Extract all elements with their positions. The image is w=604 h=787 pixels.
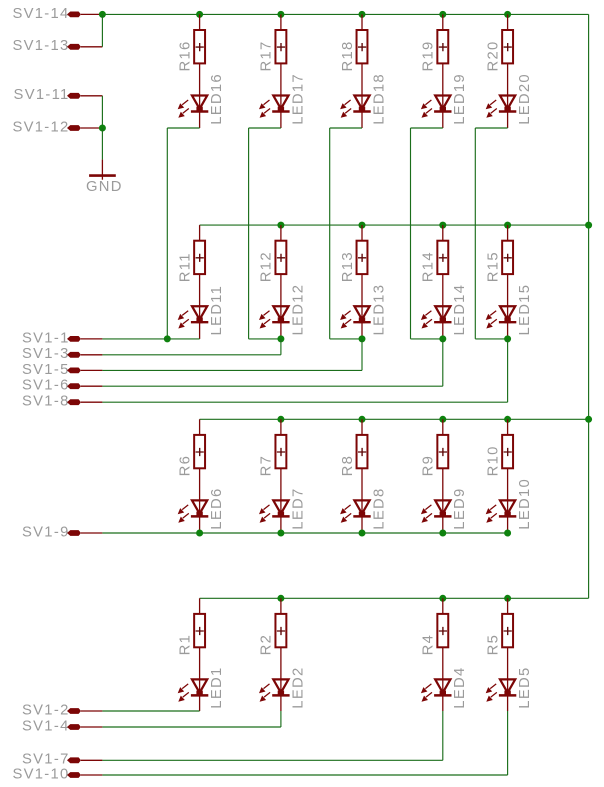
- junction SV1-9 row: [439, 530, 446, 537]
- svg-text:LED13: LED13: [371, 284, 387, 336]
- svg-text:SV1-8: SV1-8: [22, 394, 70, 410]
- junction row2 bus: [439, 222, 446, 229]
- wire LED17 jog left: [249, 127, 281, 129]
- resistor R8: [357, 419, 368, 500]
- LED LED11: [178, 305, 209, 339]
- junction row3 bus: [439, 416, 446, 423]
- svg-text:SV1-9: SV1-9: [22, 524, 70, 540]
- resistor R2: [275, 598, 286, 679]
- wire LED16 jog left: [167, 127, 199, 129]
- svg-text:R7: R7: [259, 455, 275, 477]
- svg-text:R19: R19: [421, 40, 437, 71]
- svg-text:LED20: LED20: [517, 73, 533, 125]
- svg-text:R20: R20: [485, 40, 501, 71]
- wire LED19 jog to column: [411, 338, 443, 340]
- resistor R5: [502, 598, 513, 679]
- junction SV1-9 row: [277, 530, 284, 537]
- junction row3 bus: [277, 416, 284, 423]
- resistor R17: [275, 14, 286, 95]
- wire SV1-3 up: [280, 339, 282, 355]
- svg-text:R17: R17: [259, 40, 275, 71]
- pin SV1-14: [12, 6, 102, 22]
- wire SV1-4 up: [280, 711, 282, 727]
- LED LED13: [340, 305, 371, 339]
- wire LED18 jog down: [329, 128, 331, 339]
- svg-text:LED12: LED12: [290, 284, 306, 336]
- wire LED16 jog down: [166, 128, 168, 339]
- junction SV1-9 row: [196, 530, 203, 537]
- svg-text:LED6: LED6: [209, 487, 225, 529]
- LED LED18: [340, 95, 371, 129]
- pin SV1-10: [12, 766, 102, 782]
- svg-text:R9: R9: [421, 455, 437, 477]
- wire SV1-6 up: [442, 339, 444, 386]
- svg-text:LED1: LED1: [209, 666, 225, 708]
- junction SV1-9 row: [359, 530, 366, 537]
- pin SV1-5: [22, 362, 102, 378]
- junction right vertical row2: [585, 222, 592, 229]
- junction cathode pair: [439, 335, 446, 342]
- LED LED9: [421, 499, 452, 533]
- wire net V+ top bus: [102, 13, 588, 15]
- junction right vertical row3: [585, 416, 592, 423]
- LED LED12: [259, 305, 290, 339]
- wire LED19 jog down: [410, 128, 412, 339]
- svg-text:R11: R11: [177, 252, 193, 282]
- LED LED16: [178, 95, 209, 129]
- svg-text:LED2: LED2: [290, 666, 306, 708]
- resistor R20: [502, 14, 513, 95]
- pin SV1-2: [22, 702, 102, 718]
- svg-text:LED11: LED11: [209, 285, 225, 336]
- LED LED15: [486, 305, 517, 339]
- junction cathode pair: [164, 335, 171, 342]
- junction SV1-14 bus: [99, 11, 106, 18]
- LED LED1: [178, 678, 209, 711]
- wire net V+ row3 bus: [200, 418, 589, 420]
- wire SV1-5 up: [361, 339, 363, 371]
- svg-text:LED7: LED7: [290, 487, 306, 529]
- svg-text:R12: R12: [259, 251, 275, 282]
- pin SV1-3: [22, 346, 102, 362]
- pin SV1-12: [12, 119, 102, 135]
- svg-text:LED17: LED17: [290, 73, 306, 125]
- svg-text:SV1-2: SV1-2: [22, 702, 70, 718]
- junction row1 bus: [504, 11, 511, 18]
- resistor R1: [194, 598, 205, 679]
- junction row3 bus: [359, 416, 366, 423]
- junction SV1-9 row: [504, 530, 511, 537]
- resistor R16: [194, 14, 205, 95]
- wire SV1-4: [102, 726, 281, 728]
- resistor R14: [437, 225, 448, 306]
- svg-text:SV1-13: SV1-13: [12, 38, 69, 54]
- junction row1 bus: [439, 11, 446, 18]
- wire LED20 jog to column: [475, 338, 507, 340]
- pin SV1-7: [22, 752, 102, 768]
- svg-text:R10: R10: [485, 445, 501, 476]
- wire LED17 jog down: [248, 128, 250, 339]
- svg-text:R8: R8: [340, 455, 356, 477]
- svg-text:SV1-10: SV1-10: [12, 766, 69, 782]
- wire SV1-7 up: [442, 711, 444, 760]
- LED LED8: [340, 499, 371, 533]
- svg-text:R5: R5: [485, 634, 501, 656]
- LED LED19: [421, 95, 452, 129]
- svg-text:GND: GND: [86, 179, 123, 195]
- resistor R12: [275, 225, 286, 306]
- LED LED4: [421, 678, 452, 711]
- svg-text:SV1-6: SV1-6: [22, 378, 70, 394]
- svg-text:LED19: LED19: [452, 73, 468, 125]
- resistor R13: [357, 225, 368, 306]
- svg-text:LED8: LED8: [371, 487, 387, 529]
- wire SV1-5: [102, 369, 362, 371]
- svg-text:LED16: LED16: [209, 73, 225, 125]
- junction row4 bus: [277, 595, 284, 602]
- resistor R10: [502, 419, 513, 500]
- LED LED5: [486, 678, 517, 711]
- wire SV1-1: [102, 338, 199, 340]
- junction row1 bus: [196, 11, 203, 18]
- svg-text:SV1-4: SV1-4: [22, 718, 70, 734]
- svg-text:LED5: LED5: [517, 666, 533, 708]
- wire LED20 jog left: [475, 127, 507, 129]
- svg-text:R15: R15: [485, 251, 501, 282]
- svg-text:SV1-12: SV1-12: [12, 119, 69, 135]
- resistor R19: [437, 14, 448, 95]
- junction SV1-12: [99, 125, 106, 132]
- junction cathode pair: [277, 335, 284, 342]
- ground: [89, 160, 116, 180]
- wire SV1-7: [102, 759, 442, 761]
- wire net V+ right vertical: [588, 14, 590, 598]
- pin SV1-11: [14, 87, 103, 103]
- svg-text:LED14: LED14: [452, 284, 468, 336]
- pin SV1-4: [22, 718, 102, 734]
- wire LED17 jog to column: [249, 338, 281, 340]
- resistor R15: [502, 225, 513, 306]
- svg-text:R13: R13: [340, 251, 356, 282]
- wire SV1-13 to bus: [101, 14, 103, 46]
- wire LED20 jog down: [474, 128, 476, 339]
- svg-text:R2: R2: [259, 634, 275, 656]
- wire SV1-9 common: [102, 532, 507, 534]
- junction row3 bus: [504, 416, 511, 423]
- svg-text:R6: R6: [177, 455, 193, 477]
- wire SV1-10: [102, 774, 507, 776]
- resistor R18: [357, 14, 368, 95]
- pin SV1-8: [22, 394, 102, 410]
- svg-text:LED10: LED10: [517, 478, 533, 530]
- svg-text:SV1-7: SV1-7: [22, 752, 70, 768]
- svg-text:LED4: LED4: [452, 666, 468, 708]
- wire LED18 jog left: [330, 127, 362, 129]
- junction row4 bus: [439, 595, 446, 602]
- junction cathode pair: [504, 335, 511, 342]
- junction row2 bus: [359, 222, 366, 229]
- svg-text:LED9: LED9: [452, 487, 468, 529]
- resistor R7: [275, 419, 286, 500]
- resistor R9: [437, 419, 448, 500]
- svg-text:R16: R16: [177, 40, 193, 71]
- svg-text:R14: R14: [421, 251, 437, 282]
- svg-text:R4: R4: [421, 634, 437, 656]
- LED LED17: [259, 95, 290, 129]
- pin SV1-6: [22, 378, 102, 394]
- wire SV1-6: [102, 385, 442, 387]
- wire SV1-8 up: [507, 339, 509, 402]
- svg-text:SV1-14: SV1-14: [12, 6, 69, 22]
- svg-text:R18: R18: [340, 40, 356, 71]
- wire LED19 jog left: [411, 127, 443, 129]
- wire SV1-8: [102, 401, 507, 403]
- svg-text:LED18: LED18: [371, 73, 387, 125]
- wire net V+ row2 bus: [200, 224, 589, 226]
- LED LED2: [259, 678, 290, 711]
- svg-text:SV1-3: SV1-3: [22, 346, 70, 362]
- wire SV1-11 down: [101, 96, 103, 128]
- svg-text:LED15: LED15: [517, 284, 533, 336]
- svg-text:SV1-5: SV1-5: [22, 362, 70, 378]
- svg-text:SV1-11: SV1-11: [14, 87, 70, 103]
- wire SV1-3: [102, 354, 281, 356]
- svg-text:SV1-1: SV1-1: [22, 330, 70, 346]
- wire SV1-10 up: [507, 711, 509, 775]
- junction cathode pair: [359, 335, 366, 342]
- resistor R11: [194, 225, 205, 306]
- pin SV1-1: [22, 330, 102, 346]
- junction row1 bus: [277, 11, 284, 18]
- LED LED14: [421, 305, 452, 339]
- wire LED18 jog to column: [330, 338, 362, 340]
- pin SV1-13: [12, 38, 102, 54]
- wire net V+ row4 bus: [200, 597, 589, 599]
- svg-text:R1: R1: [177, 634, 193, 656]
- LED LED20: [486, 95, 517, 129]
- pin SV1-9: [22, 524, 102, 540]
- wire SV1-2: [102, 710, 199, 712]
- resistor R4: [437, 598, 448, 679]
- wire to ground: [101, 128, 103, 160]
- LED LED7: [259, 499, 290, 533]
- resistor R6: [194, 419, 205, 500]
- LED LED10: [486, 499, 517, 533]
- junction row2 bus: [277, 222, 284, 229]
- junction row2 bus: [504, 222, 511, 229]
- junction row4 bus: [504, 595, 511, 602]
- LED LED6: [178, 499, 209, 533]
- junction row1 bus: [359, 11, 366, 18]
